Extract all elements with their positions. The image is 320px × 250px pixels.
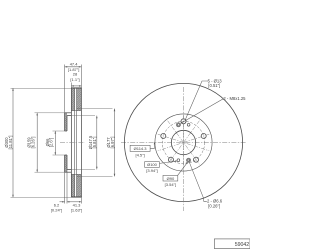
svg-text:[3.54"]: [3.54"] <box>165 182 176 187</box>
svg-text:2 - M8x1.25: 2 - M8x1.25 <box>223 96 246 101</box>
svg-text:[1.63"]: [1.63"] <box>71 207 82 212</box>
svg-text:[0.26"]: [0.26"] <box>208 204 220 209</box>
svg-text:Ø147.5[5.81"]: Ø147.5[5.81"] <box>88 135 97 149</box>
svg-text:[0.51"]: [0.51"] <box>208 83 220 88</box>
svg-text:[1.1"]: [1.1"] <box>70 77 79 82</box>
svg-text:Ø300[11.81"]: Ø300[11.81"] <box>4 136 13 150</box>
svg-text:Ø66[2.6"]: Ø66[2.6"] <box>45 138 54 148</box>
svg-text:Ø100: Ø100 <box>147 162 158 167</box>
svg-text:Ø177[6.97"]: Ø177[6.97"] <box>106 137 115 149</box>
svg-text:[4.5"]: [4.5"] <box>135 153 144 158</box>
svg-text:[0.24"]: [0.24"] <box>51 207 62 212</box>
svg-text:59042: 59042 <box>235 242 250 248</box>
svg-text:Ø159[6.26"]: Ø159[6.26"] <box>27 137 36 149</box>
svg-text:Ø114.3: Ø114.3 <box>134 146 148 151</box>
svg-text:Ø90: Ø90 <box>167 176 175 181</box>
svg-text:[3.94"]: [3.94"] <box>146 168 157 173</box>
svg-text:47.4: 47.4 <box>70 61 79 66</box>
